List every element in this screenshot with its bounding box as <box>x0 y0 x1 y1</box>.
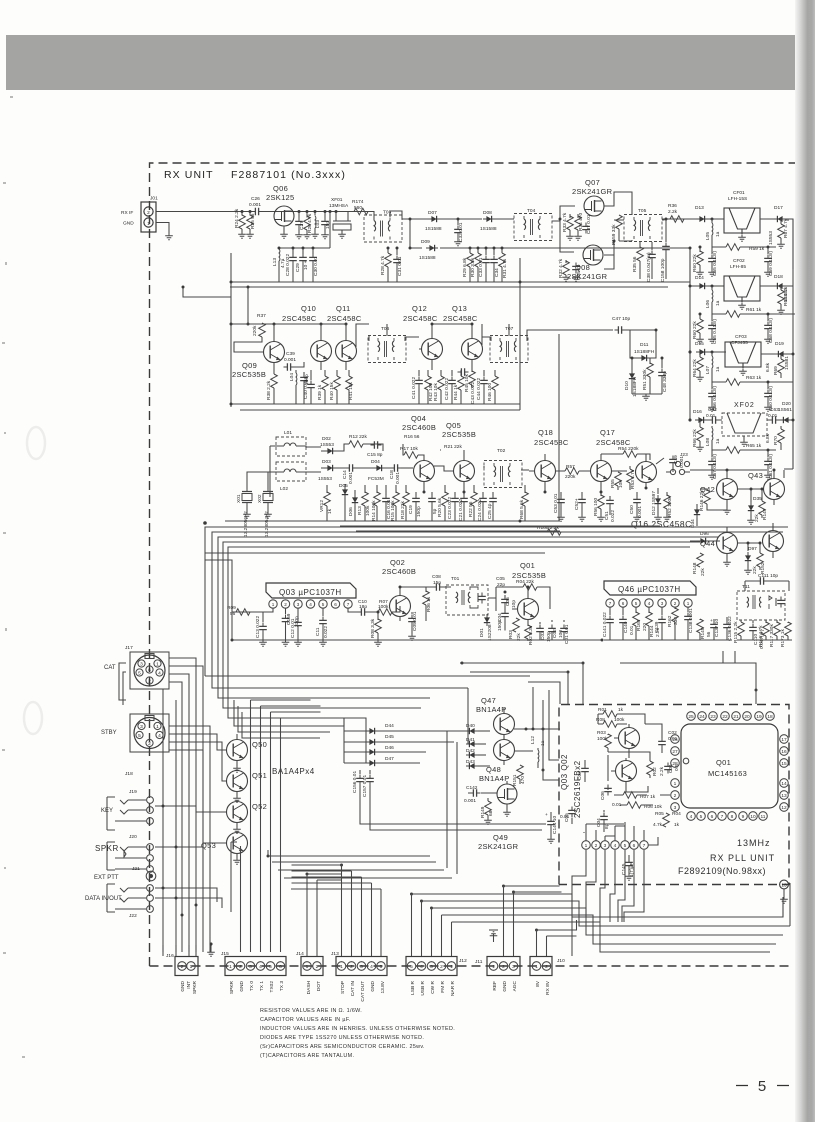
resistor R38 2.2k <box>273 363 275 374</box>
svg-text:2SK125: 2SK125 <box>266 193 295 202</box>
diode D10 <box>629 370 635 382</box>
resistor R43 10k <box>440 370 442 376</box>
transistor Q08 <box>583 245 603 265</box>
svg-text:C38 0.047(ar): C38 0.047(ar) <box>646 252 652 282</box>
svg-text:2SC458C: 2SC458C <box>403 314 438 323</box>
transistor Q09 <box>264 342 285 363</box>
svg-text:R15 100k: R15 100k <box>390 500 396 521</box>
capacitor C02 100 <box>548 625 556 636</box>
svg-text:C141 0.022: C141 0.022 <box>602 612 608 637</box>
wire second row feed <box>279 212 330 248</box>
resistor R115 2.2k <box>740 620 742 622</box>
svg-text:3: 3 <box>249 964 252 970</box>
svg-text:11: 11 <box>761 814 766 820</box>
wire long verticals left <box>163 945 196 956</box>
transistor Q02 pll <box>616 761 637 782</box>
svg-text:+: + <box>710 619 713 624</box>
svg-text:2SC458C: 2SC458C <box>534 438 569 447</box>
svg-text:L03: L03 <box>315 220 321 228</box>
svg-text:27: 27 <box>672 749 678 755</box>
svg-text:0.001: 0.001 <box>637 506 643 518</box>
transistor Q07 <box>584 196 604 216</box>
svg-text:STOP: STOP <box>340 981 346 994</box>
svg-text:D47: D47 <box>385 756 394 762</box>
transistor Q50 <box>227 740 248 761</box>
svg-text:2.2k: 2.2k <box>659 766 665 776</box>
capacitor C31 <box>396 248 398 255</box>
capacitor C29 <box>302 248 304 254</box>
svg-text:15: 15 <box>781 761 787 767</box>
row2 supply rails <box>231 404 520 410</box>
svg-text:R03: R03 <box>508 630 514 639</box>
svg-text:T05: T05 <box>638 208 647 214</box>
transistor Q11 <box>336 341 357 362</box>
svg-text:J11: J11 <box>475 959 483 965</box>
svg-text:Q52: Q52 <box>252 802 267 811</box>
resistor R61 1k <box>712 306 795 314</box>
svg-text:2: 2 <box>350 964 353 970</box>
svg-text:R116 4.7k: R116 4.7k <box>758 625 764 647</box>
svg-text:1S188FH: 1S188FH <box>634 349 655 355</box>
svg-text:T02: T02 <box>497 448 506 454</box>
svg-text:0.01: 0.01 <box>629 625 635 635</box>
svg-text:R08 3.3k: R08 3.3k <box>370 618 376 638</box>
transistor Q47 <box>494 714 515 735</box>
svg-text:R52 100k: R52 100k <box>667 496 673 517</box>
svg-text:BN1A4P: BN1A4P <box>479 774 510 783</box>
capacitor C40 <box>310 370 312 380</box>
svg-text:D02: D02 <box>322 436 331 442</box>
svg-text:C50: C50 <box>629 505 635 514</box>
svg-text:Q51: Q51 <box>252 771 267 780</box>
svg-text:LFH-15S: LFH-15S <box>728 196 747 202</box>
svg-text:L12: L12 <box>530 736 536 744</box>
resistor R173 1k <box>785 622 792 636</box>
svg-text:1: 1 <box>340 964 343 970</box>
resistor R09 56 <box>232 608 273 612</box>
capacitor C13 <box>262 612 264 622</box>
svg-text:5: 5 <box>322 602 325 607</box>
svg-text:68: 68 <box>488 810 494 816</box>
svg-text:19: 19 <box>756 714 762 720</box>
svg-text:C139: C139 <box>654 621 660 633</box>
svg-text:13.23054Hz: 13.23054Hz <box>264 511 270 537</box>
svg-text:3: 3 <box>140 662 143 668</box>
resistor R07 1k <box>623 792 637 799</box>
svg-text:Q17: Q17 <box>600 428 615 437</box>
svg-text:1S1588: 1S1588 <box>425 226 442 232</box>
svg-text:FC53M: FC53M <box>368 476 384 482</box>
resistor R161 220 <box>635 607 637 613</box>
svg-text:C23 0.022: C23 0.022 <box>447 497 453 519</box>
wire PLL connector drops <box>572 850 644 956</box>
svg-text:6: 6 <box>279 964 282 970</box>
svg-text:F2887101 (No.3xxx): F2887101 (No.3xxx) <box>231 169 346 181</box>
svg-text:C02: C02 <box>552 629 558 638</box>
svg-text:D46: D46 <box>385 745 394 751</box>
svg-text:9: 9 <box>742 814 745 820</box>
svg-text:2SC458C: 2SC458C <box>282 314 317 323</box>
resistor R41 15k <box>348 370 350 376</box>
svg-text:Q04: Q04 <box>411 414 426 423</box>
svg-text:L08: L08 <box>705 438 711 446</box>
capacitor C12 0.01 <box>297 608 299 618</box>
svg-text:R30 3.3k: R30 3.3k <box>470 257 476 277</box>
svg-text:J21: J21 <box>132 866 140 872</box>
svg-text:1: 1 <box>535 964 538 970</box>
resistor R29 <box>469 248 471 253</box>
svg-text:4.7k: 4.7k <box>653 822 663 828</box>
svg-text:R34 470: R34 470 <box>578 213 584 231</box>
capacitor C05 pll <box>568 807 576 818</box>
svg-text:Q05: Q05 <box>446 421 461 430</box>
svg-text:CAT: CAT <box>104 665 116 671</box>
svg-text:CW R: CW R <box>430 980 436 993</box>
svg-text:Q48: Q48 <box>486 765 501 774</box>
svg-text:C43 0.022: C43 0.022 <box>470 382 476 404</box>
svg-text:0.022: 0.022 <box>610 510 616 522</box>
svg-text:1: 1 <box>147 221 150 227</box>
svg-text:21: 21 <box>733 714 739 720</box>
IC pins top <box>687 712 775 721</box>
svg-text:R16 56: R16 56 <box>404 434 420 440</box>
svg-text:D03: D03 <box>322 459 331 465</box>
svg-text:D35: D35 <box>753 496 762 502</box>
capacitor C21 0.022 <box>463 492 465 495</box>
svg-text:J16: J16 <box>166 953 174 959</box>
svg-text:C25 4p: C25 4p <box>487 503 493 519</box>
svg-text:D19: D19 <box>775 341 784 347</box>
svg-text:Q11: Q11 <box>336 304 351 313</box>
svg-text:R173 1k: R173 1k <box>780 629 786 647</box>
wire Q09 base <box>234 342 264 352</box>
svg-text:330: 330 <box>673 617 679 625</box>
svg-text:1S1588: 1S1588 <box>480 226 497 232</box>
svg-text:5: 5 <box>269 964 272 970</box>
resistor R52 100k <box>666 492 668 496</box>
capacitor C158 100p <box>665 219 667 242</box>
capacitor C57 <box>711 450 713 457</box>
svg-text:CF03: CF03 <box>735 334 747 340</box>
svg-text:R21 22k: R21 22k <box>444 444 462 450</box>
svg-text:R117 330k: R117 330k <box>769 624 775 647</box>
svg-text:D13: D13 <box>695 205 704 211</box>
svg-text:C55 0.113r): C55 0.113r) <box>712 319 718 344</box>
connector J17 CAT <box>125 645 169 689</box>
svg-text:6.8k: 6.8k <box>765 362 771 372</box>
transistor Q10 <box>311 341 332 362</box>
svg-text:XF02: XF02 <box>734 402 755 409</box>
svg-text:L01: L01 <box>284 430 292 436</box>
svg-text:R70: R70 <box>773 436 779 445</box>
svg-text:R18 22k: R18 22k <box>400 501 406 519</box>
transistor Q03 pll <box>619 728 640 749</box>
svg-text:C26: C26 <box>251 196 260 202</box>
svg-text:LFH-85: LFH-85 <box>730 264 746 270</box>
svg-text:6.8k: 6.8k <box>765 433 771 443</box>
svg-text:4: 4 <box>614 843 617 849</box>
transistor Q01 <box>518 599 539 620</box>
svg-text:R25 56: R25 56 <box>250 213 256 229</box>
transistor Q04 <box>414 461 435 482</box>
ground above J15 <box>210 944 212 950</box>
resistor R67 <box>787 219 789 221</box>
svg-text:C111 10p: C111 10p <box>758 573 778 579</box>
svg-text:1: 1 <box>492 964 495 970</box>
svg-text:C59 0.113r): C59 0.113r) <box>768 251 774 276</box>
resistor R28 <box>387 248 389 253</box>
resistor R59 1k <box>712 239 776 247</box>
svg-text:5: 5 <box>700 814 703 820</box>
diode D34 <box>694 506 700 518</box>
transistor Q16 <box>636 462 657 483</box>
svg-text:5: 5 <box>138 671 141 677</box>
svg-text:D16: D16 <box>693 409 702 415</box>
supply rail wires top <box>230 281 690 283</box>
resistor R116 4.7k <box>763 622 770 636</box>
capacitor C53 <box>560 492 562 496</box>
svg-text:6: 6 <box>334 602 337 607</box>
transistor Q02 <box>390 596 411 617</box>
svg-text:2SC535B: 2SC535B <box>512 571 546 580</box>
svg-text:C156 0.01: C156 0.01 <box>352 771 358 793</box>
svg-text:2: 2 <box>545 964 548 970</box>
resistor R117 330k <box>774 622 781 636</box>
IC Q01 MC145163 <box>681 724 778 808</box>
inductor L05 1a <box>701 218 703 220</box>
svg-text:R60: R60 <box>692 263 698 272</box>
svg-text:X02: X02 <box>257 494 263 503</box>
resistor R65 1k <box>712 444 776 450</box>
svg-text:D14: D14 <box>695 275 704 281</box>
resistor R30 <box>477 248 479 253</box>
svg-text:C51: C51 <box>604 511 610 520</box>
svg-text:C03: C03 <box>577 771 583 780</box>
svg-text:2SC460B: 2SC460B <box>382 567 416 576</box>
svg-text:5: 5 <box>624 843 627 849</box>
svg-text:6: 6 <box>633 843 636 849</box>
svg-text:C33 0.01: C33 0.01 <box>478 257 484 277</box>
svg-text:CAT IN: CAT IN <box>350 980 356 996</box>
svg-text:BN1A4P: BN1A4P <box>476 705 507 714</box>
connector J10 <box>530 957 552 976</box>
svg-text:1S553: 1S553 <box>768 231 774 245</box>
svg-text:1: 1 <box>450 964 453 970</box>
svg-text:C31 0.01: C31 0.01 <box>397 256 403 276</box>
capacitor C24 0.022 <box>482 492 484 495</box>
capacitor C63 <box>769 416 780 424</box>
svg-text:VR12: VR12 <box>319 500 325 512</box>
capacitor C03 150p <box>536 625 544 636</box>
resistor R35 56 <box>639 242 641 248</box>
svg-text:13.8V: 13.8V <box>380 980 386 993</box>
svg-text:D06: D06 <box>348 507 354 516</box>
pll wires <box>572 724 670 841</box>
svg-text:C52+: C52+ <box>574 498 580 510</box>
svg-text:R35 56: R35 56 <box>632 256 638 272</box>
svg-text:2.2k: 2.2k <box>668 209 678 215</box>
capacitor C52 <box>581 492 583 496</box>
svg-text:100k: 100k <box>597 736 608 742</box>
svg-text:RX PLL UNIT: RX PLL UNIT <box>710 853 775 863</box>
svg-text:28: 28 <box>672 761 678 767</box>
svg-text:1: 1 <box>306 964 309 970</box>
svg-text:18: 18 <box>767 714 773 720</box>
svg-text:L04: L04 <box>289 373 295 381</box>
svg-text:R65 1k: R65 1k <box>746 443 762 449</box>
notes text <box>260 1008 455 1059</box>
svg-text:TX 0: TX 0 <box>249 981 255 991</box>
capacitor C01 <box>664 763 672 774</box>
capacitor C110 0.047 <box>749 624 757 635</box>
svg-text:RESISTOR VALUES ARE IN Ω. 1/6W: RESISTOR VALUES ARE IN Ω. 1/6W. <box>260 1008 362 1014</box>
svg-text:1a: 1a <box>715 231 721 237</box>
svg-text:Q03 Q02: Q03 Q02 <box>560 754 569 790</box>
svg-text:C57 0.113r): C57 0.113r) <box>712 454 718 479</box>
wire J10 verticals <box>537 920 577 956</box>
svg-text:CF02: CF02 <box>733 258 745 264</box>
resistor R32 <box>565 260 567 263</box>
svg-text:R151: R151 <box>512 774 518 786</box>
svg-text:R56 100: R56 100 <box>593 498 599 516</box>
svg-text:10 +: 10 + <box>303 260 309 270</box>
capacitor 15p <box>324 212 326 218</box>
resistor R24 <box>241 212 243 216</box>
resistor R08 3.3k <box>377 612 379 620</box>
resistor R18 22k <box>405 485 407 493</box>
wire Q47 emitter right <box>514 687 560 770</box>
svg-text:22k: 22k <box>692 359 698 367</box>
svg-text:4: 4 <box>370 964 373 970</box>
svg-text:R68 4.7k: R68 4.7k <box>783 286 789 306</box>
svg-text:D15: D15 <box>695 341 704 347</box>
connector J12 <box>406 957 457 976</box>
svg-text:C15 8p: C15 8p <box>367 452 383 458</box>
svg-text:6: 6 <box>148 668 151 674</box>
resistor R03 22k <box>513 618 520 632</box>
svg-text:6: 6 <box>622 601 625 606</box>
svg-text:D01: D01 <box>479 628 485 637</box>
resistor R60 22k <box>699 247 701 252</box>
wire AF row to PLL routing <box>460 651 756 704</box>
capacitor C138 0.001 <box>684 613 692 624</box>
IC Q03 pins <box>269 600 352 608</box>
svg-text:10p: 10p <box>511 600 517 608</box>
svg-text:2SC460B: 2SC460B <box>402 423 436 432</box>
svg-text:Q50: Q50 <box>252 740 267 749</box>
svg-text:R28 4.7k: R28 4.7k <box>380 255 386 275</box>
svg-text:1S1588: 1S1588 <box>419 255 436 261</box>
capacitor C25 4p <box>492 492 494 495</box>
svg-text:5: 5 <box>635 601 638 606</box>
capacitor C49 <box>672 454 674 456</box>
capacitor C11 0.022 <box>322 608 324 616</box>
svg-text:4: 4 <box>158 733 161 739</box>
svg-text:D08: D08 <box>483 210 492 216</box>
svg-text:C37 0.01: C37 0.01 <box>586 214 592 234</box>
svg-text:USB R: USB R <box>420 980 426 995</box>
svg-text:INDUCTOR VALUES ARE IN HENRIES: INDUCTOR VALUES ARE IN HENRIES. UNLESS O… <box>260 1026 455 1032</box>
capacitor C139 <box>658 616 666 627</box>
inductor L07 <box>711 351 714 354</box>
svg-text:R38 2.2k: R38 2.2k <box>266 380 272 400</box>
svg-text:0.001: 0.001 <box>395 472 401 484</box>
svg-text:C06: C06 <box>600 791 606 800</box>
svg-text:R13: R13 <box>357 506 363 515</box>
svg-text:R37: R37 <box>257 313 266 319</box>
svg-text:T11: T11 <box>742 584 750 590</box>
resistor R15 100k <box>395 485 397 493</box>
svg-text:R64: R64 <box>692 368 698 377</box>
svg-text:3: 3 <box>512 964 515 970</box>
svg-text:2: 2 <box>148 679 151 685</box>
svg-text:24: 24 <box>699 714 705 720</box>
resistor R06 10k <box>627 802 641 809</box>
svg-text:Q43: Q43 <box>748 471 763 480</box>
svg-text:6: 6 <box>711 814 714 820</box>
svg-text:GND: GND <box>180 980 186 991</box>
svg-text:Q03 µPC1037H: Q03 µPC1037H <box>279 588 342 597</box>
capacitor C01 0.01 <box>560 625 568 636</box>
right edge vertical wires <box>784 382 793 478</box>
svg-text:13MHz: 13MHz <box>737 838 771 848</box>
svg-text:R149: R149 <box>480 806 486 818</box>
capacitor C159 330p <box>285 608 287 614</box>
svg-text:5: 5 <box>758 1078 766 1095</box>
svg-text:R32 4.7k: R32 4.7k <box>558 258 564 278</box>
svg-text:1k: 1k <box>674 822 680 828</box>
svg-text:1: 1 <box>674 781 677 787</box>
capacitor C156 <box>359 770 361 774</box>
svg-text:D44: D44 <box>385 723 394 729</box>
svg-text:0.01: 0.01 <box>706 413 716 419</box>
svg-text:7: 7 <box>643 843 646 849</box>
capacitor C157 <box>369 770 371 774</box>
svg-text:TX02: TX02 <box>269 981 275 993</box>
svg-text:J20: J20 <box>129 834 137 840</box>
svg-text:MC145163: MC145163 <box>708 769 747 778</box>
wire T05 to CF01 <box>662 218 724 220</box>
svg-text:R20 5.6k: R20 5.6k <box>437 497 443 517</box>
capacitor C35 7p <box>572 263 580 274</box>
svg-text:1a: 1a <box>715 300 721 306</box>
svg-text:C144 10: C144 10 <box>552 816 558 834</box>
jack J22 DATA IN/OUT <box>107 884 153 912</box>
svg-text:0.01: 0.01 <box>768 413 778 419</box>
svg-text:+: + <box>545 813 548 818</box>
resistor R66 22k <box>699 420 701 427</box>
svg-text:1S2208: 1S2208 <box>487 624 493 641</box>
svg-text:3: 3 <box>140 724 143 730</box>
connector J01 <box>121 196 158 233</box>
transistor Q44 <box>717 533 738 554</box>
svg-text:3: 3 <box>360 964 363 970</box>
svg-text:D17: D17 <box>774 205 783 211</box>
svg-text:C08: C08 <box>432 574 441 580</box>
svg-text:C40 0.022: C40 0.022 <box>303 377 309 399</box>
resistor R63 1k <box>712 372 793 382</box>
svg-text:5: 5 <box>380 964 383 970</box>
resistor R149 68 <box>485 801 492 815</box>
capacitor C20 5p <box>431 492 433 495</box>
svg-text:D18: D18 <box>774 274 783 280</box>
svg-text:13: 13 <box>781 883 787 889</box>
resistor R162 330 <box>674 607 676 609</box>
junction dots <box>241 210 338 213</box>
resistor R147 22k <box>759 501 766 515</box>
resistor R26 <box>306 212 308 218</box>
svg-text:R12 22k: R12 22k <box>349 434 367 440</box>
